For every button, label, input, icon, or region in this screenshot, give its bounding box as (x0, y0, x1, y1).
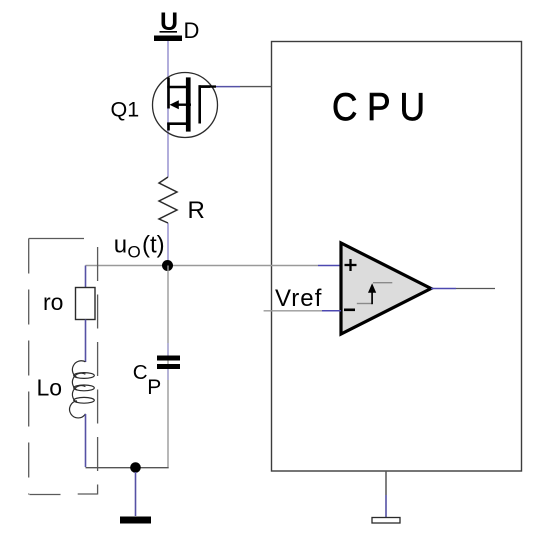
junction: bottom rail node (130, 462, 141, 473)
svg-text:(t): (t) (142, 232, 165, 259)
svg-text:O: O (128, 243, 141, 262)
transistor Q1 (p-MOSFET) (153, 73, 218, 138)
wire: Vref to comparator - input (264, 310, 322, 312)
CPU block U2 (272, 42, 522, 472)
wire segment at CP (lavender) (167, 343, 169, 356)
wire: node uO horizontal (86, 265, 319, 267)
svg-text:Q1: Q1 (111, 98, 140, 122)
wire: node uO down through CP (167, 266, 169, 468)
wire: Lo to bottom rail (85, 414, 87, 467)
ground (filled bar) (120, 517, 151, 524)
wire: U_D rail down through Q1 to resistor R (167, 41, 169, 177)
power rail bar U_D (154, 36, 182, 42)
wire: bottom rail (86, 467, 169, 469)
svg-text:Vref: Vref (275, 285, 323, 312)
svg-text:R: R (188, 197, 205, 224)
wire: comparator output (431, 288, 456, 290)
wire: branch from uO down to ro (85, 266, 87, 288)
wire: node to ground (135, 472, 137, 516)
wire: resistor R to node uO (167, 223, 169, 266)
inductor Lo (70, 361, 95, 418)
svg-text:P: P (147, 376, 161, 399)
wire: CPU to ground (385, 471, 387, 495)
pin label - (344, 308, 355, 311)
ground (open bar under CPU) (372, 518, 400, 524)
svg-text:C P U: C P U (332, 86, 425, 129)
hysteresis symbol (357, 283, 393, 305)
svg-text:u: u (114, 232, 127, 259)
pin label + (345, 259, 357, 271)
svg-text:Lo: Lo (37, 375, 63, 401)
capacitor CP (157, 356, 180, 361)
junction node uO (162, 260, 173, 271)
svg-text:C: C (133, 361, 148, 384)
resistor ro (76, 288, 96, 320)
wire: ro to Lo (85, 320, 87, 363)
resistor R (159, 177, 177, 223)
svg-text:D: D (184, 18, 200, 43)
comparator U1 (Schmitt trigger) (341, 243, 431, 334)
wire: comparator + input stub (318, 265, 341, 267)
dashed enclosure (output filter) (29, 239, 98, 495)
wire: Q1 gate to CPU (199, 85, 217, 87)
svg-text:ro: ro (43, 289, 63, 315)
